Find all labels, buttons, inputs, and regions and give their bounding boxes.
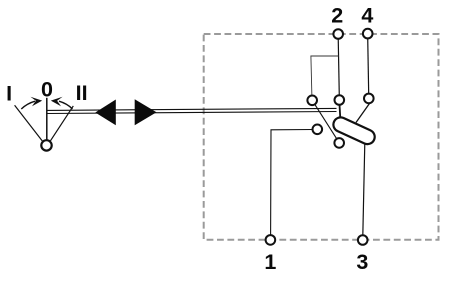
enclosure dashed boundary bbox=[204, 34, 439, 240]
terminal 3 circle bbox=[358, 235, 368, 245]
svg-text:II: II bbox=[76, 81, 88, 105]
wire terminal4 to contact C bbox=[368, 37, 369, 95]
wire contact C to movable contact bbox=[356, 103, 370, 123]
svg-text:4: 4 bbox=[361, 4, 373, 28]
lever arm (position 0) bbox=[46, 98, 48, 141]
contact E bbox=[334, 138, 344, 148]
contact B bbox=[335, 95, 345, 105]
coupling triangle right bbox=[135, 99, 157, 125]
pivot circle bbox=[41, 140, 51, 150]
svg-text:3: 3 bbox=[356, 250, 368, 274]
wire terminal2 to contact B bbox=[338, 37, 339, 97]
terminal 1 circle bbox=[266, 235, 276, 245]
position line I bbox=[15, 105, 43, 141]
wire branch to contact A bbox=[311, 56, 339, 97]
mechanical shaft lower line bbox=[48, 112, 337, 114]
svg-text:1: 1 bbox=[264, 250, 276, 274]
terminal 2 circle bbox=[333, 29, 343, 39]
curved arrow left (I to 0) bbox=[21, 97, 42, 109]
svg-text:2: 2 bbox=[331, 4, 343, 28]
svg-text:I: I bbox=[6, 81, 12, 105]
terminal 4 circle bbox=[363, 29, 373, 39]
position line II bbox=[50, 106, 73, 141]
wire contact B stub to movable contact bbox=[339, 103, 340, 120]
contact A bbox=[307, 96, 317, 106]
coupling triangle left bbox=[95, 100, 116, 126]
contact C bbox=[364, 94, 374, 104]
wire contact A to contact E bbox=[312, 100, 339, 142]
mechanical shaft upper line bbox=[48, 108, 337, 110]
curved arrow right (II to 0) bbox=[51, 97, 73, 109]
movable contact (rotating bridge bar) bbox=[341, 125, 368, 137]
wire movable contact to terminal 3 bbox=[363, 143, 365, 236]
contact D bbox=[313, 125, 323, 135]
wire contact D to terminal 1 bbox=[271, 130, 313, 237]
